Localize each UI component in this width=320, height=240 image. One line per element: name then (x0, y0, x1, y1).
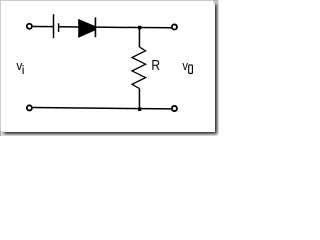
drop shadow (right and bottom) (4, 4, 217, 134)
wire resistor R down to node B (138, 89, 140, 109)
bottom-right terminal (172, 106, 177, 111)
resistor R zigzag (132, 47, 146, 89)
bottom wire (33, 108, 172, 109)
wire battery to diode (59, 26, 79, 28)
bottom shadow left fade cap (0, 131, 7, 136)
label vo : subscript 0 (188, 64, 193, 74)
output terminal (top-right) (172, 24, 177, 29)
wire node A down to resistor R (138, 27, 140, 47)
diode cathode bar (94, 17, 96, 37)
label vi : letter v (16, 63, 22, 70)
node A junction dot (top) (138, 26, 141, 30)
battery short plate (58, 23, 60, 32)
white content box (0, 0, 215, 132)
wire input terminal to battery (32, 25, 53, 27)
border frame left (0, 0, 1, 136)
wire node A to output terminal (140, 27, 172, 29)
label vo : letter v (182, 63, 188, 70)
label R (resistor) (152, 60, 159, 70)
node B junction dot (bottom) (138, 107, 141, 110)
right shadow top fade cap (213, 0, 218, 7)
wire diode to node A (96, 26, 139, 28)
bottom-left terminal (27, 105, 32, 110)
label vi : subscript i (23, 65, 24, 74)
diode anode triangle (78, 19, 96, 38)
input terminal (top-left) (27, 24, 32, 29)
battery long plate (53, 14, 55, 38)
border frame top (0, 0, 215, 1)
